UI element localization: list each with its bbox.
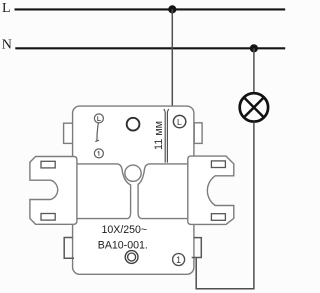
housing upper seam with central pocket (73, 164, 194, 219)
circled L terminal marking (173, 115, 185, 127)
svg-text:L: L (177, 117, 182, 127)
svg-text:L: L (2, 1, 11, 16)
right claw lower slot (211, 214, 225, 221)
left claw (30, 157, 77, 225)
circled 1 output marking (173, 254, 185, 266)
wire N bus (15, 47, 285, 49)
output terminal block (192, 238, 202, 258)
junction dot on L (168, 5, 176, 13)
left mounting tab (64, 123, 74, 143)
right mounting tab (194, 123, 202, 144)
housing lower seam (73, 218, 194, 220)
svg-text:11 мм: 11 мм (153, 121, 165, 150)
left claw upper slot (41, 161, 55, 168)
strip-length gauge 11mm (164, 109, 169, 162)
junction dot on N (250, 44, 258, 52)
right claw upper slot (211, 161, 225, 168)
wire L bus (15, 8, 286, 10)
rocker pivot circle (125, 165, 141, 181)
switch contact symbol: terminal L (94, 114, 103, 123)
switch contact symbol: terminal 1 (94, 149, 103, 158)
screw hole circle (127, 118, 140, 131)
wire from N to lamp (253, 48, 255, 93)
svg-text:BA10-001.: BA10-001. (98, 239, 148, 251)
wire from L to switch terminal (171, 9, 173, 107)
switch body housing (73, 106, 194, 274)
switch contact lever (95, 123, 99, 142)
terminal screw symbol (125, 251, 138, 264)
svg-text:10X/250~: 10X/250~ (101, 224, 147, 236)
left terminal block (64, 238, 74, 259)
svg-text:1: 1 (176, 255, 181, 265)
left claw lower slot (41, 214, 55, 221)
right claw (188, 156, 234, 224)
wire from lamp to switch output terminal (196, 122, 254, 289)
svg-text:N: N (2, 38, 12, 53)
lamp E1 (240, 93, 268, 121)
